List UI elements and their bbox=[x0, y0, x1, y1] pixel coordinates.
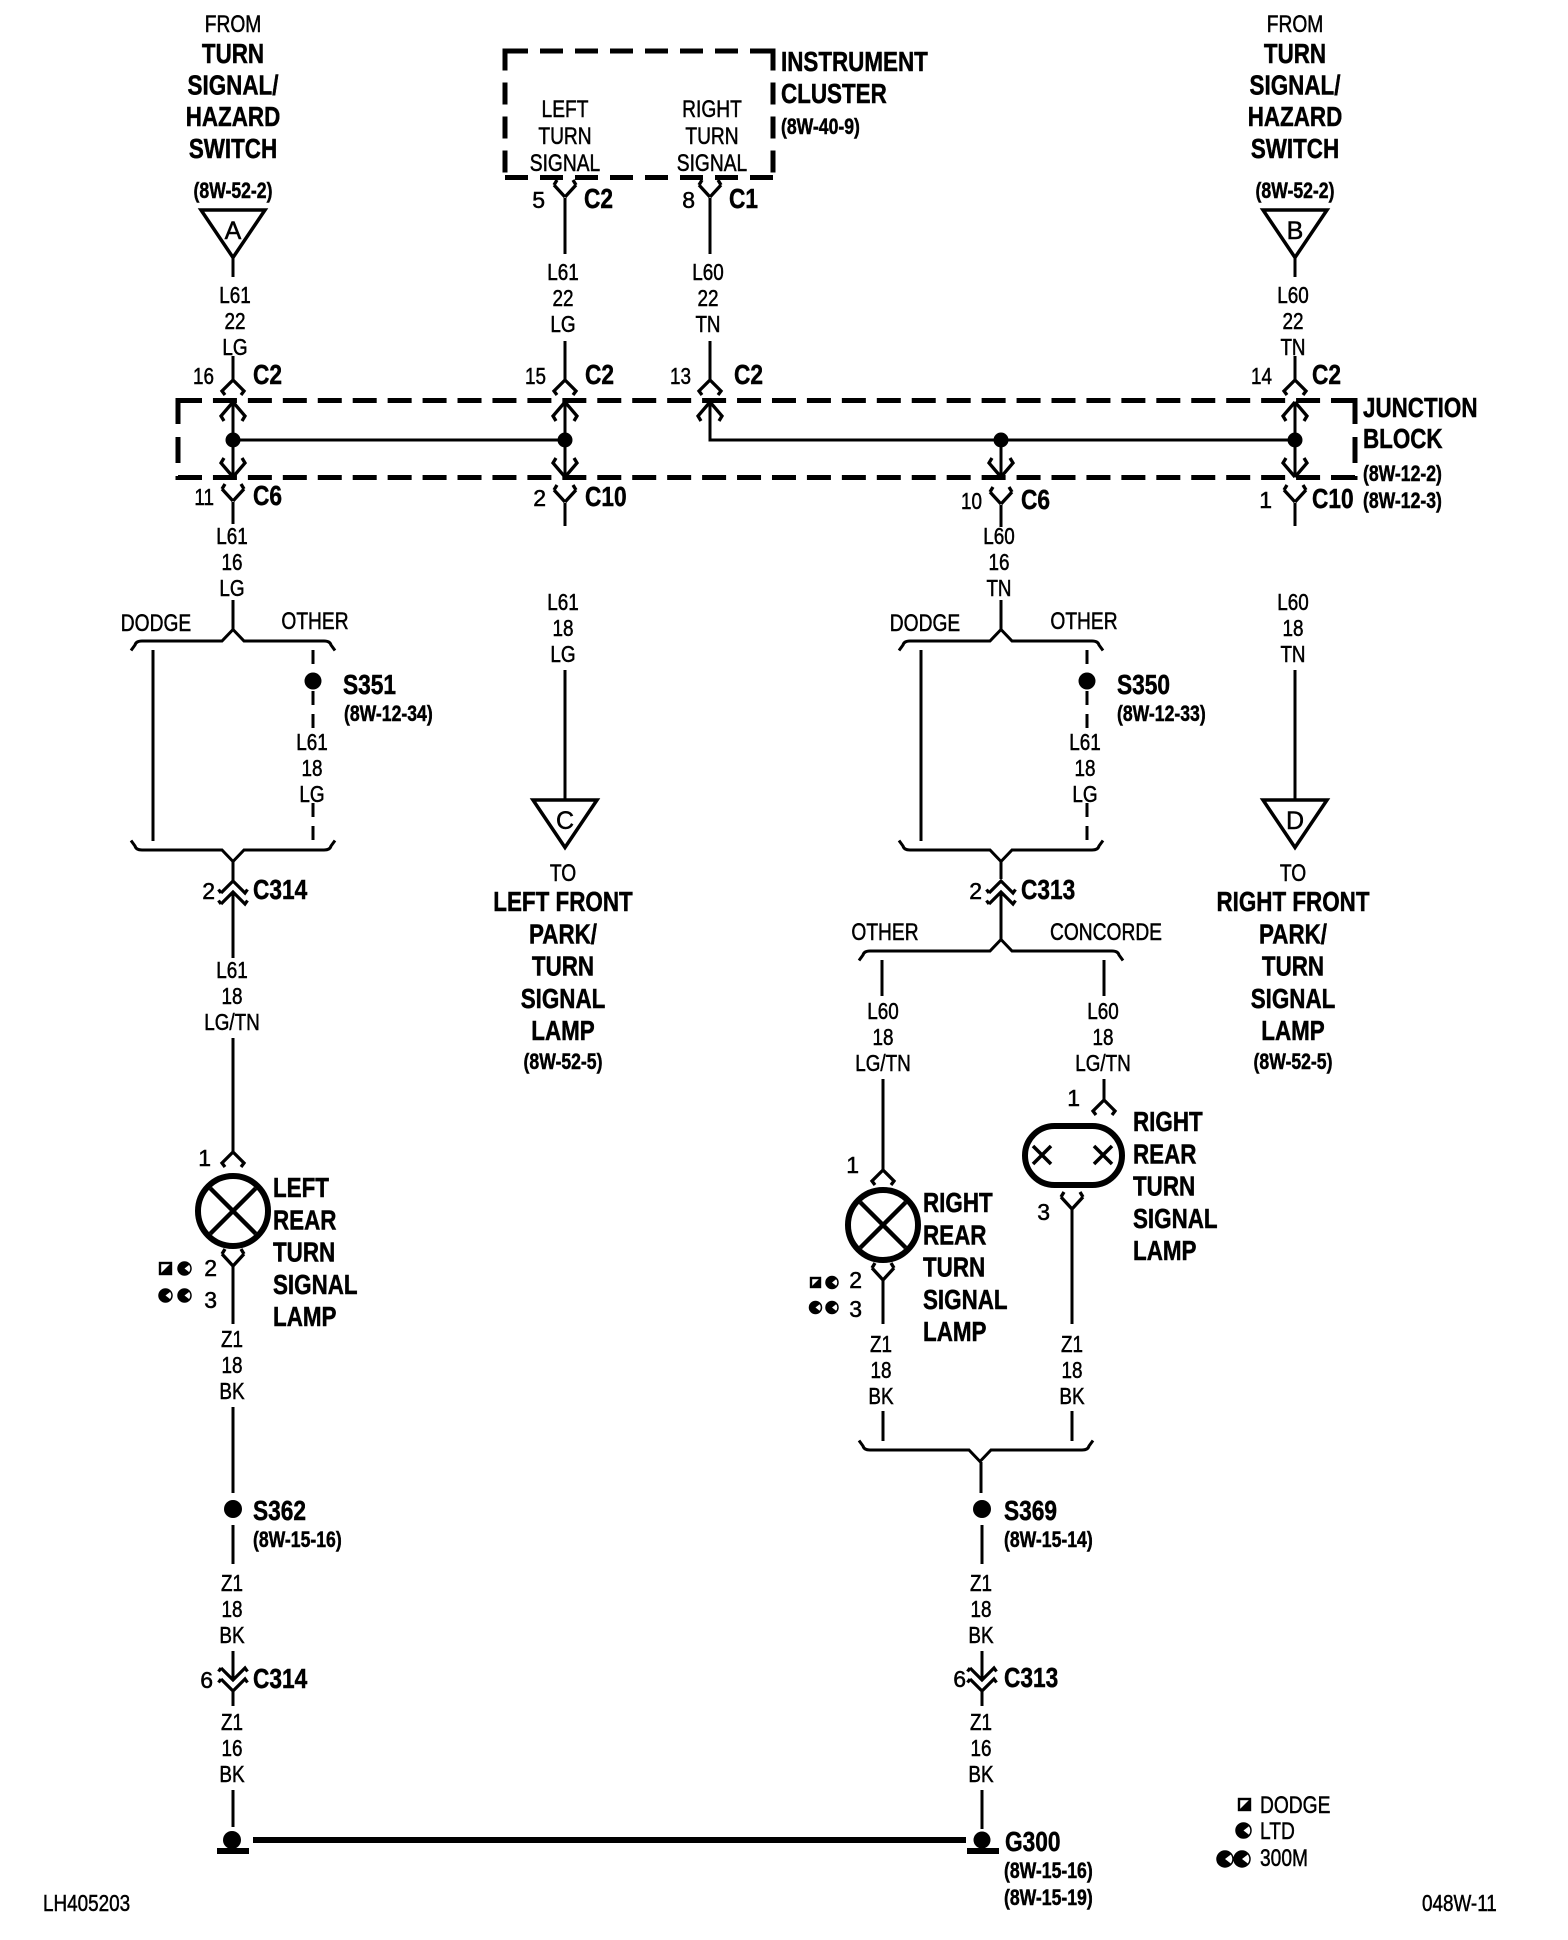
svg-text:LG/TN: LG/TN bbox=[855, 1050, 911, 1076]
svg-text:SIGNAL: SIGNAL bbox=[1133, 1203, 1218, 1234]
svg-text:C2: C2 bbox=[584, 183, 613, 214]
svg-text:LG/TN: LG/TN bbox=[204, 1009, 260, 1035]
svg-text:G300: G300 bbox=[1005, 1826, 1061, 1857]
svg-text:DODGE: DODGE bbox=[890, 610, 960, 637]
svg-text:LAMP: LAMP bbox=[273, 1301, 337, 1332]
svg-text:INSTRUMENT: INSTRUMENT bbox=[781, 46, 928, 77]
svg-text:TURN: TURN bbox=[685, 123, 738, 150]
svg-text:TURN: TURN bbox=[1133, 1171, 1195, 1202]
svg-text:3: 3 bbox=[849, 1296, 862, 1322]
svg-text:18: 18 bbox=[1062, 1357, 1083, 1383]
svg-text:RIGHT: RIGHT bbox=[1133, 1106, 1203, 1137]
svg-text:SWITCH: SWITCH bbox=[189, 133, 277, 164]
svg-text:L61: L61 bbox=[219, 282, 251, 308]
svg-text:TN: TN bbox=[986, 575, 1011, 601]
svg-text:C: C bbox=[556, 807, 574, 835]
svg-text:1: 1 bbox=[1067, 1085, 1080, 1111]
svg-text:SIGNAL: SIGNAL bbox=[1251, 983, 1336, 1014]
svg-text:2: 2 bbox=[969, 878, 982, 904]
svg-text:LG: LG bbox=[222, 334, 247, 360]
svg-text:18: 18 bbox=[1093, 1024, 1114, 1050]
svg-text:SIGNAL/: SIGNAL/ bbox=[1250, 70, 1341, 101]
svg-text:18: 18 bbox=[871, 1357, 892, 1383]
svg-text:BK: BK bbox=[968, 1761, 994, 1787]
svg-text:TURN: TURN bbox=[273, 1237, 335, 1268]
svg-text:SIGNAL: SIGNAL bbox=[530, 150, 600, 177]
svg-text:Z1: Z1 bbox=[970, 1709, 992, 1735]
svg-text:JUNCTION: JUNCTION bbox=[1363, 392, 1478, 423]
svg-text:SIGNAL: SIGNAL bbox=[521, 983, 606, 1014]
svg-text:LAMP: LAMP bbox=[1133, 1235, 1197, 1266]
svg-text:C2: C2 bbox=[253, 359, 282, 390]
svg-text:14: 14 bbox=[1251, 363, 1272, 389]
svg-text:Z1: Z1 bbox=[221, 1709, 243, 1735]
svg-text:(8W-52-5): (8W-52-5) bbox=[1254, 1049, 1333, 1074]
svg-text:L61: L61 bbox=[216, 523, 248, 549]
svg-text:BK: BK bbox=[219, 1761, 245, 1787]
svg-text:Z1: Z1 bbox=[1061, 1331, 1083, 1357]
svg-text:(8W-15-16): (8W-15-16) bbox=[1004, 1858, 1093, 1883]
svg-text:11: 11 bbox=[194, 484, 214, 510]
svg-text:10: 10 bbox=[961, 488, 982, 514]
svg-text:SWITCH: SWITCH bbox=[1251, 133, 1339, 164]
svg-text:1: 1 bbox=[846, 1152, 859, 1178]
svg-text:LG: LG bbox=[1072, 781, 1097, 807]
svg-text:S350: S350 bbox=[1117, 669, 1170, 700]
svg-text:18: 18 bbox=[222, 1596, 243, 1622]
svg-text:(8W-15-14): (8W-15-14) bbox=[1004, 1527, 1093, 1552]
svg-text:S362: S362 bbox=[253, 1495, 306, 1526]
svg-text:LAMP: LAMP bbox=[1261, 1015, 1325, 1046]
svg-text:16: 16 bbox=[193, 363, 214, 389]
svg-text:(8W-52-2): (8W-52-2) bbox=[1256, 178, 1335, 203]
svg-text:18: 18 bbox=[222, 1352, 243, 1378]
svg-text:TURN: TURN bbox=[923, 1252, 985, 1283]
svg-text:L60: L60 bbox=[1277, 589, 1309, 615]
svg-text:C313: C313 bbox=[1004, 1662, 1058, 1693]
svg-text:16: 16 bbox=[222, 1735, 243, 1761]
svg-text:Z1: Z1 bbox=[221, 1570, 243, 1596]
svg-text:SIGNAL: SIGNAL bbox=[677, 150, 747, 177]
svg-text:TURN: TURN bbox=[532, 951, 594, 982]
svg-text:(8W-52-5): (8W-52-5) bbox=[524, 1049, 603, 1074]
svg-text:2: 2 bbox=[204, 1255, 217, 1281]
svg-text:1: 1 bbox=[198, 1145, 211, 1171]
svg-text:L60: L60 bbox=[1277, 282, 1309, 308]
svg-text:HAZARD: HAZARD bbox=[186, 101, 281, 132]
svg-text:B: B bbox=[1287, 217, 1304, 245]
svg-text:TURN: TURN bbox=[1262, 951, 1324, 982]
svg-text:C6: C6 bbox=[1021, 484, 1050, 515]
svg-text:FROM: FROM bbox=[205, 11, 262, 38]
svg-text:LEFT FRONT: LEFT FRONT bbox=[493, 886, 632, 917]
svg-text:BK: BK bbox=[1059, 1383, 1085, 1409]
svg-text:22: 22 bbox=[225, 308, 246, 334]
svg-text:5: 5 bbox=[532, 187, 545, 213]
svg-text:TURN: TURN bbox=[538, 123, 591, 150]
svg-text:L60: L60 bbox=[983, 523, 1015, 549]
svg-text:18: 18 bbox=[553, 615, 574, 641]
svg-text:RIGHT: RIGHT bbox=[682, 96, 742, 123]
svg-text:Z1: Z1 bbox=[870, 1331, 892, 1357]
svg-text:C10: C10 bbox=[1312, 483, 1354, 514]
svg-text:L60: L60 bbox=[692, 259, 724, 285]
svg-text:BLOCK: BLOCK bbox=[1363, 423, 1443, 454]
svg-text:C314: C314 bbox=[253, 1663, 308, 1694]
svg-text:HAZARD: HAZARD bbox=[1248, 101, 1343, 132]
svg-text:2: 2 bbox=[533, 485, 546, 511]
svg-text:TURN: TURN bbox=[1264, 38, 1326, 69]
svg-text:8: 8 bbox=[682, 187, 695, 213]
svg-text:FROM: FROM bbox=[1267, 11, 1324, 38]
svg-text:3: 3 bbox=[1037, 1199, 1050, 1225]
svg-text:C6: C6 bbox=[253, 480, 282, 511]
svg-text:L61: L61 bbox=[547, 589, 579, 615]
svg-text:(8W-12-33): (8W-12-33) bbox=[1117, 701, 1206, 726]
svg-text:BK: BK bbox=[868, 1383, 894, 1409]
svg-text:18: 18 bbox=[1283, 615, 1304, 641]
svg-text:300M: 300M bbox=[1260, 1845, 1308, 1872]
svg-text:LG: LG bbox=[550, 641, 575, 667]
svg-text:TN: TN bbox=[1280, 641, 1305, 667]
svg-text:S351: S351 bbox=[343, 669, 396, 700]
svg-text:A: A bbox=[225, 217, 242, 245]
svg-text:REAR: REAR bbox=[1133, 1138, 1197, 1169]
svg-text:6: 6 bbox=[200, 1667, 213, 1693]
svg-text:LH405203: LH405203 bbox=[43, 1890, 130, 1916]
svg-text:(8W-52-2): (8W-52-2) bbox=[194, 178, 273, 203]
svg-text:2: 2 bbox=[202, 878, 215, 904]
svg-text:RIGHT: RIGHT bbox=[923, 1187, 993, 1218]
svg-text:(8W-12-34): (8W-12-34) bbox=[344, 701, 433, 726]
svg-text:TN: TN bbox=[695, 311, 720, 337]
svg-text:DODGE: DODGE bbox=[1260, 1792, 1330, 1819]
svg-text:(8W-15-16): (8W-15-16) bbox=[253, 1527, 342, 1552]
svg-text:SIGNAL: SIGNAL bbox=[273, 1269, 358, 1300]
svg-text:L61: L61 bbox=[547, 259, 579, 285]
svg-text:1: 1 bbox=[1259, 487, 1272, 513]
svg-text:048W-11: 048W-11 bbox=[1422, 1890, 1497, 1916]
svg-text:15: 15 bbox=[525, 363, 546, 389]
svg-text:C10: C10 bbox=[585, 481, 627, 512]
svg-text:OTHER: OTHER bbox=[851, 919, 918, 946]
svg-text:C314: C314 bbox=[253, 874, 308, 905]
svg-text:S369: S369 bbox=[1004, 1495, 1057, 1526]
svg-text:Z1: Z1 bbox=[970, 1570, 992, 1596]
svg-text:18: 18 bbox=[971, 1596, 992, 1622]
svg-text:L61: L61 bbox=[216, 957, 248, 983]
svg-text:OTHER: OTHER bbox=[1050, 608, 1117, 635]
svg-text:SIGNAL: SIGNAL bbox=[923, 1284, 1008, 1315]
svg-text:SIGNAL/: SIGNAL/ bbox=[188, 70, 279, 101]
svg-text:BK: BK bbox=[219, 1622, 245, 1648]
svg-text:PARK/: PARK/ bbox=[1259, 918, 1327, 949]
svg-text:LG/TN: LG/TN bbox=[1075, 1050, 1131, 1076]
svg-text:L61: L61 bbox=[296, 729, 328, 755]
svg-text:C2: C2 bbox=[1312, 359, 1341, 390]
svg-text:PARK/: PARK/ bbox=[529, 918, 597, 949]
svg-text:CLUSTER: CLUSTER bbox=[781, 78, 887, 109]
svg-text:C313: C313 bbox=[1021, 874, 1075, 905]
svg-text:REAR: REAR bbox=[923, 1219, 987, 1250]
svg-text:(8W-12-2): (8W-12-2) bbox=[1363, 461, 1442, 486]
svg-text:D: D bbox=[1286, 807, 1304, 835]
svg-text:3: 3 bbox=[204, 1287, 217, 1313]
svg-text:18: 18 bbox=[873, 1024, 894, 1050]
svg-text:DODGE: DODGE bbox=[121, 610, 191, 637]
svg-text:6: 6 bbox=[953, 1666, 966, 1692]
svg-text:16: 16 bbox=[971, 1735, 992, 1761]
svg-text:16: 16 bbox=[989, 549, 1010, 575]
svg-text:TO: TO bbox=[550, 860, 576, 887]
svg-text:(8W-12-3): (8W-12-3) bbox=[1363, 488, 1442, 513]
svg-text:2: 2 bbox=[849, 1267, 862, 1293]
svg-text:LEFT: LEFT bbox=[542, 96, 589, 123]
svg-text:BK: BK bbox=[968, 1622, 994, 1648]
svg-text:(8W-40-9): (8W-40-9) bbox=[781, 114, 860, 139]
svg-text:TURN: TURN bbox=[202, 38, 264, 69]
svg-text:22: 22 bbox=[1283, 308, 1304, 334]
svg-text:RIGHT FRONT: RIGHT FRONT bbox=[1216, 886, 1369, 917]
svg-text:L61: L61 bbox=[1069, 729, 1101, 755]
svg-text:TO: TO bbox=[1280, 860, 1306, 887]
svg-text:(8W-15-19): (8W-15-19) bbox=[1004, 1885, 1093, 1910]
svg-text:CONCORDE: CONCORDE bbox=[1050, 919, 1162, 946]
svg-text:22: 22 bbox=[698, 285, 719, 311]
svg-text:LG: LG bbox=[550, 311, 575, 337]
svg-text:L60: L60 bbox=[867, 998, 899, 1024]
svg-text:BK: BK bbox=[219, 1378, 245, 1404]
svg-text:C1: C1 bbox=[729, 183, 758, 214]
svg-text:13: 13 bbox=[670, 363, 691, 389]
svg-text:18: 18 bbox=[222, 983, 243, 1009]
svg-text:18: 18 bbox=[1075, 755, 1096, 781]
svg-text:LTD: LTD bbox=[1260, 1818, 1295, 1845]
svg-text:OTHER: OTHER bbox=[281, 608, 348, 635]
svg-text:REAR: REAR bbox=[273, 1204, 337, 1235]
svg-text:LAMP: LAMP bbox=[531, 1015, 595, 1046]
svg-text:TN: TN bbox=[1280, 334, 1305, 360]
svg-text:L60: L60 bbox=[1087, 998, 1119, 1024]
svg-text:LEFT: LEFT bbox=[273, 1172, 329, 1203]
svg-text:LG: LG bbox=[219, 575, 244, 601]
svg-text:16: 16 bbox=[222, 549, 243, 575]
svg-text:C2: C2 bbox=[585, 359, 614, 390]
svg-text:22: 22 bbox=[553, 285, 574, 311]
svg-text:LAMP: LAMP bbox=[923, 1316, 987, 1347]
svg-text:Z1: Z1 bbox=[221, 1326, 243, 1352]
svg-text:C2: C2 bbox=[734, 359, 763, 390]
svg-text:18: 18 bbox=[302, 755, 323, 781]
